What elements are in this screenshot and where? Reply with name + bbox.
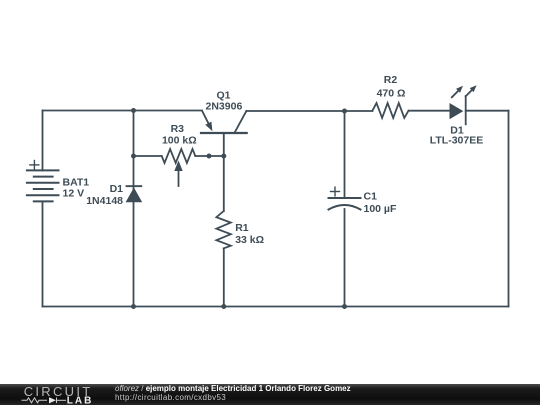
svg-text:R1: R1 xyxy=(235,222,249,234)
svg-text:470 Ω: 470 Ω xyxy=(377,88,406,100)
svg-text:100 µF: 100 µF xyxy=(364,203,397,215)
svg-text:33 kΩ: 33 kΩ xyxy=(235,234,264,246)
svg-text:12 V: 12 V xyxy=(63,188,85,200)
svg-text:LTL-307EE: LTL-307EE xyxy=(430,135,483,147)
svg-text:R2: R2 xyxy=(384,74,398,86)
svg-text:2N3906: 2N3906 xyxy=(206,101,243,113)
svg-text:D1: D1 xyxy=(110,183,124,195)
svg-text:C1: C1 xyxy=(364,191,378,203)
svg-text:100 kΩ: 100 kΩ xyxy=(162,135,197,147)
svg-text:1N4148: 1N4148 xyxy=(86,195,123,207)
svg-text:LAB: LAB xyxy=(67,395,94,405)
svg-text:R3: R3 xyxy=(171,123,185,135)
